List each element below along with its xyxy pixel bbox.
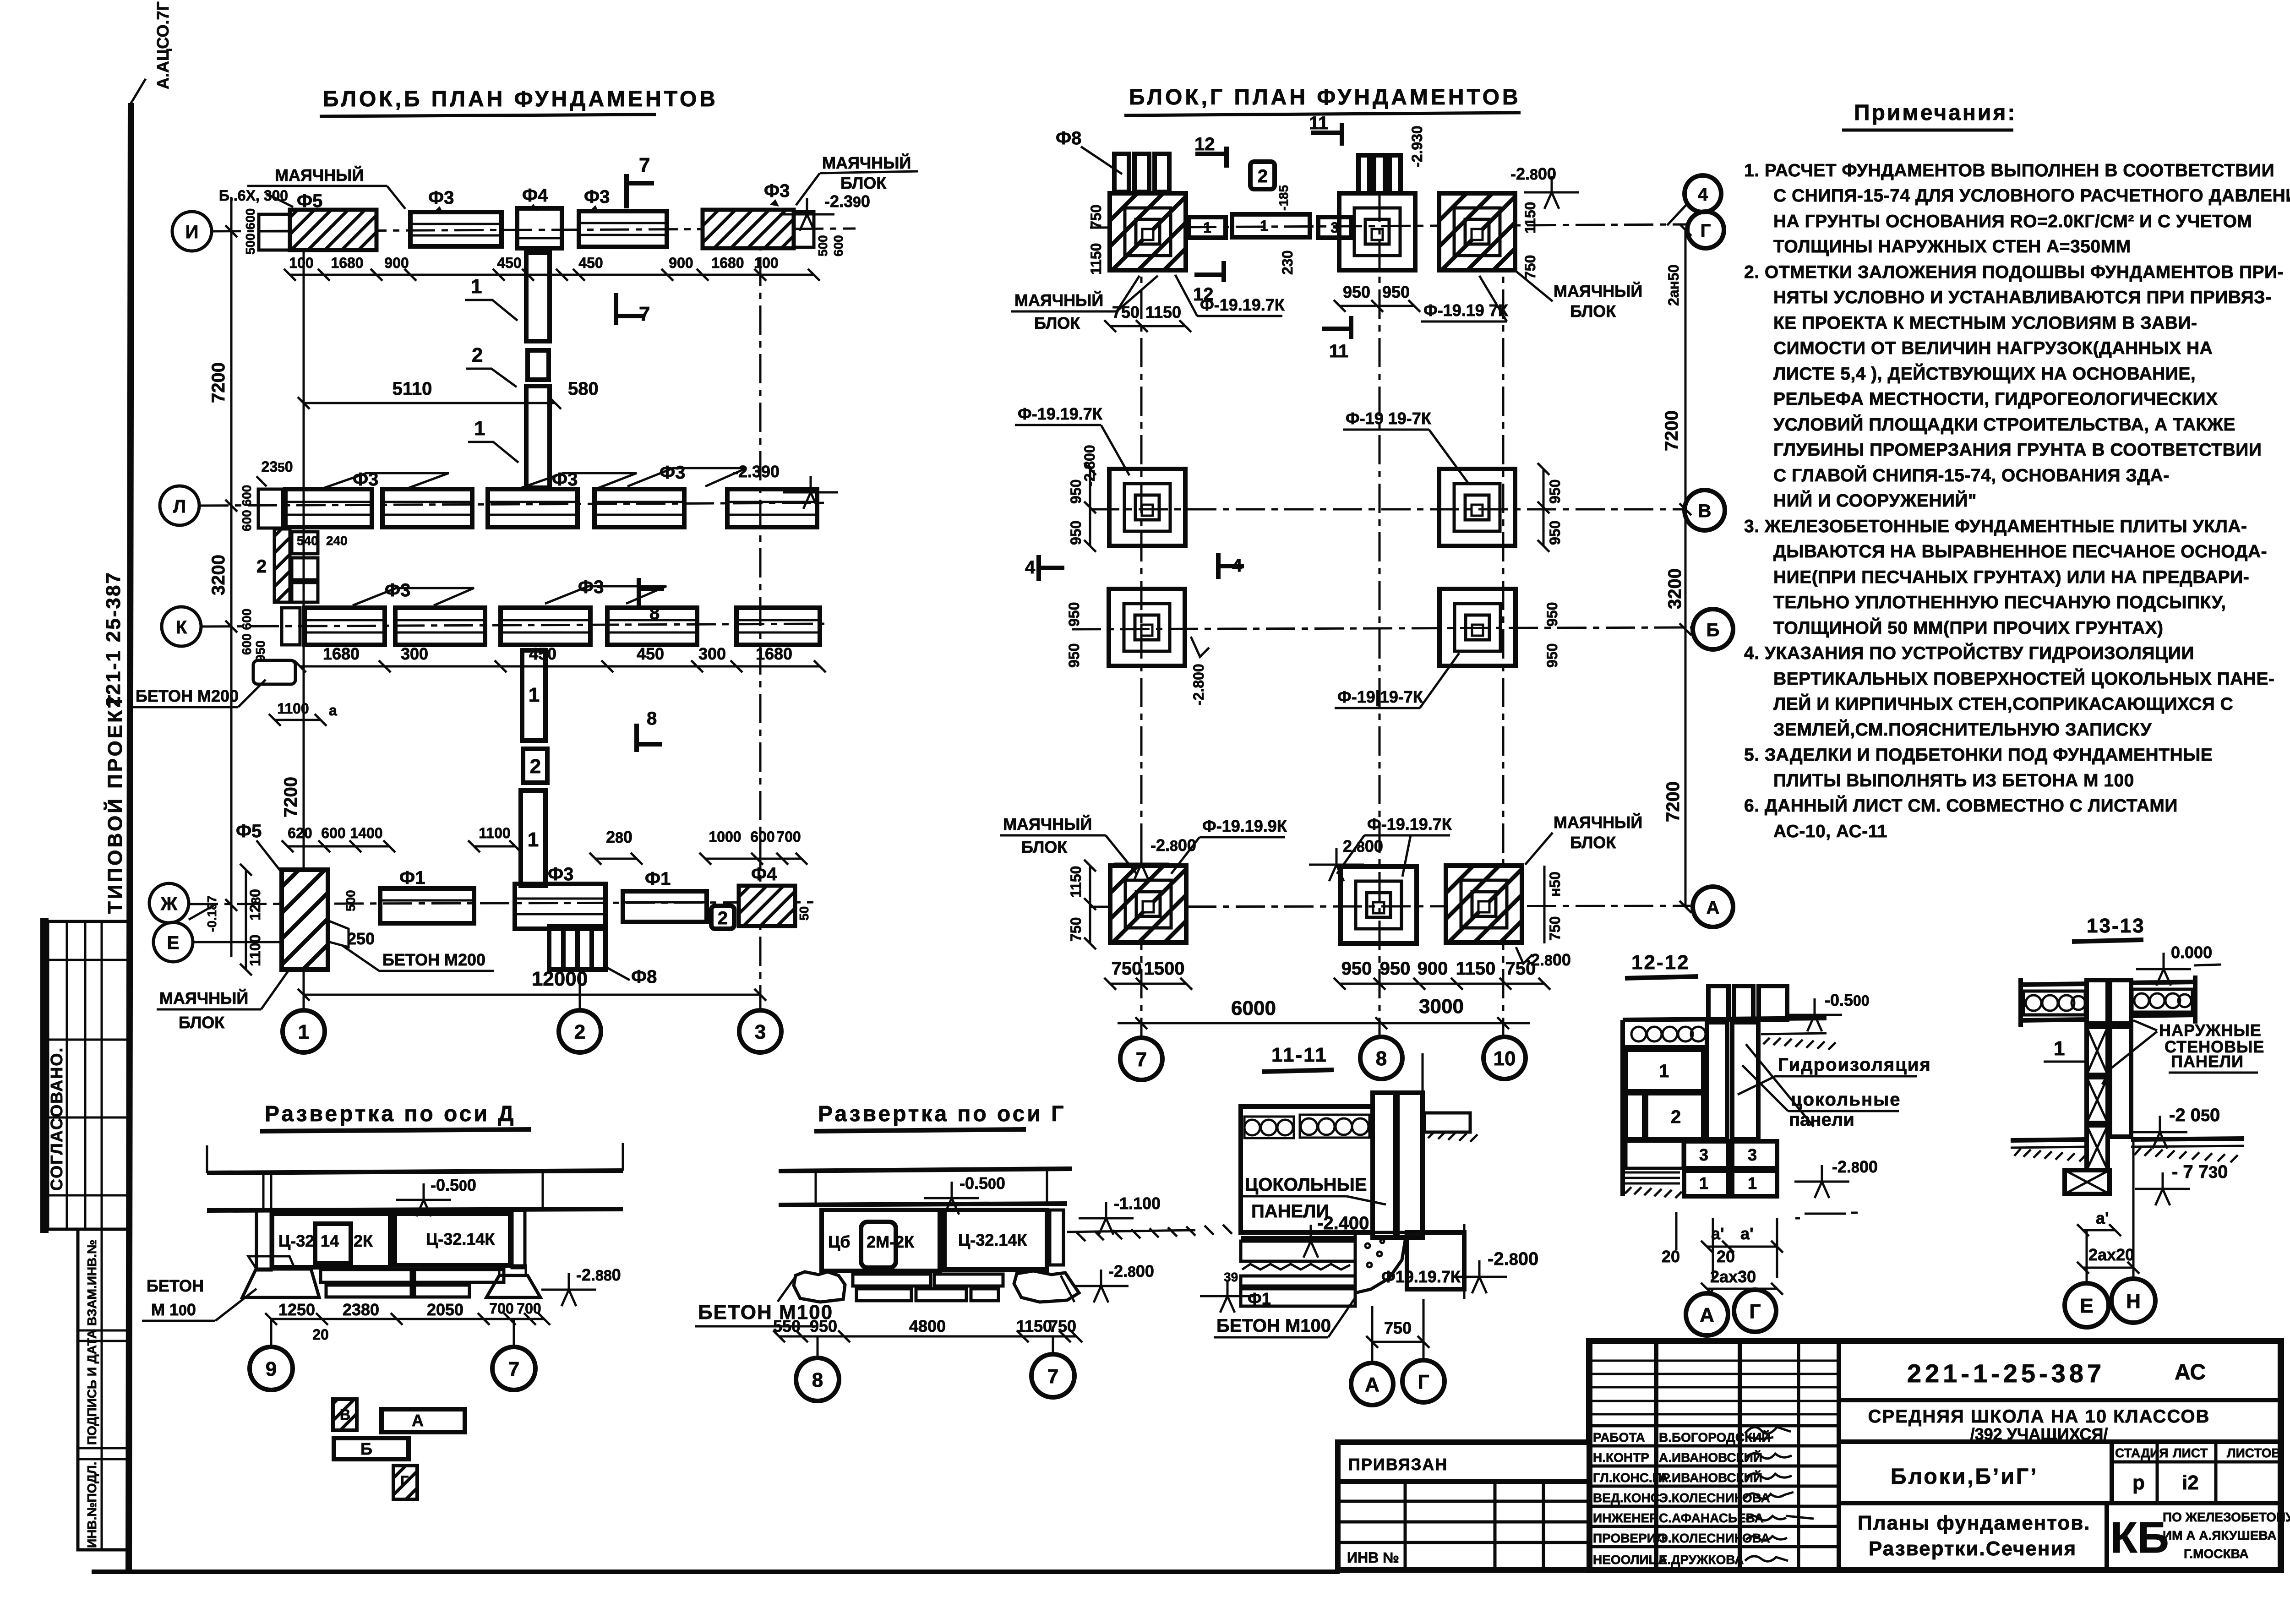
svg-text:2М-2К: 2М-2К (867, 1232, 915, 1251)
legend hatched block Г (393, 1466, 417, 1499)
legend rect Б (334, 1438, 409, 1459)
svg-text:-0.500: -0.500 (1825, 991, 1870, 1009)
svg-text:Н: Н (2126, 1290, 2141, 1313)
svg-text:МАЯЧНЫЙ: МАЯЧНЫЙ (1554, 812, 1642, 832)
svg-text:і2: і2 (2182, 1471, 2199, 1494)
axis circle А right (1693, 887, 1733, 927)
svg-text:3200: 3200 (208, 555, 229, 595)
svg-text:БЛОК: БЛОК (1021, 838, 1068, 856)
title block left rows (1589, 1361, 1839, 1414)
svg-text:-2.390: -2.390 (733, 462, 780, 481)
middle blocks row Г small 3 (1318, 217, 1351, 238)
axis 8 vertical (1379, 192, 1381, 1037)
svg-text:толщины наружных стен а=350мм: толщины наружных стен а=350мм (1773, 237, 2131, 256)
svg-text:Ф4: Ф4 (751, 864, 777, 884)
svg-text:АС-10, АС-11: АС-10, АС-11 (1773, 822, 1887, 841)
svg-text:Ф8: Ф8 (1056, 128, 1081, 148)
svg-text:БЕТОН М200: БЕТОН М200 (136, 687, 239, 705)
svg-text:300: 300 (401, 644, 428, 663)
middle blocks row Г small 1 (1189, 217, 1226, 238)
svg-text:10: 10 (1494, 1047, 1516, 1070)
row Ж strip Ф1 right (623, 891, 707, 922)
elevation Г right wall end (1050, 1210, 1063, 1265)
svg-text:11: 11 (1309, 113, 1328, 133)
vertical panels section 12-12 (1707, 1022, 1727, 1139)
svg-text:3. Железобетонные фундаментные: 3. Железобетонные фундаментные плиты укл… (1744, 517, 2247, 536)
svg-text:Г: Г (1750, 1300, 1761, 1323)
svg-text:Ф3: Ф3 (764, 181, 790, 201)
svg-text:Б: Б (1707, 620, 1720, 640)
section 13-13 central column right strip (2110, 980, 2131, 1024)
dims a a section 12-12 (1707, 1246, 1777, 1248)
svg-text:1150: 1150 (1522, 202, 1538, 234)
pad 7-В nested (1109, 469, 1185, 546)
svg-text:БЛОК: БЛОК (840, 174, 887, 192)
section mark 7 top (627, 174, 654, 208)
axis line Ж (189, 902, 820, 904)
section 12-12 top blocks (1708, 986, 1728, 1020)
svg-text:ПОДПИСЬ И ДАТА: ПОДПИСЬ И ДАТА (85, 1330, 99, 1445)
row Л strip 3 (488, 489, 578, 527)
corner mark top-left (129, 79, 146, 106)
svg-text:НАРУЖНЫЕ: НАРУЖНЫЕ (2159, 1021, 2262, 1040)
svg-text:Ф-19.19.7К: Ф-19.19.7К (1018, 404, 1103, 423)
svg-text:100: 100 (754, 255, 778, 271)
svg-text:900: 900 (1418, 959, 1448, 979)
svg-text:ИНВ №: ИНВ № (1347, 1549, 1399, 1566)
svg-text:4800: 4800 (909, 1317, 946, 1335)
svg-text:39: 39 (1224, 1270, 1238, 1284)
svg-text:950: 950 (1547, 480, 1563, 504)
svg-text:1680: 1680 (756, 644, 792, 663)
svg-text:АС: АС (2175, 1360, 2206, 1384)
svg-text:2К: 2К (354, 1232, 373, 1250)
axis circle 8 (1360, 1037, 1402, 1079)
small tick near Ж circle (189, 904, 216, 920)
concrete patch бетон (1355, 1232, 1407, 1293)
svg-text:450: 450 (637, 644, 664, 663)
block Ф19.19.7К (1407, 1232, 1464, 1289)
svg-text:Ц-32.14К: Ц-32.14К (426, 1230, 495, 1248)
svg-text:1680: 1680 (331, 255, 363, 271)
svg-text:Примечания:: Примечания: (1854, 101, 2017, 125)
row И hatched strip A (маячный блок) (290, 210, 376, 250)
svg-text:100: 100 (289, 255, 313, 271)
svg-text:750: 750 (1049, 1317, 1076, 1335)
svg-text:а: а (329, 702, 337, 719)
svg-text:Г: Г (400, 1473, 409, 1489)
pad 7-Б nested (1109, 589, 1185, 666)
svg-text:А: А (412, 1411, 424, 1430)
svg-text:1250: 1250 (278, 1300, 315, 1319)
svg-text:1500: 1500 (1144, 959, 1185, 979)
row Ж block Ф3 at axis2 (515, 884, 605, 929)
svg-text:Б: Б (360, 1439, 372, 1458)
svg-text:5. Заделки и подбетонки под фу: 5. Заделки и подбетонки под фундаментные (1744, 745, 2213, 765)
axis circle Б right (1693, 609, 1733, 649)
svg-text:2: 2 (530, 755, 541, 778)
svg-text:6. Данный лист см. совместно с: 6. Данный лист см. совместно с листами (1744, 795, 2178, 816)
small wedge at Ф5 bottom right (328, 921, 349, 947)
elevation Г footing stones right (1014, 1271, 1079, 1302)
ground line section 13-13 (2011, 1139, 2087, 1140)
svg-text:221-1-25-387: 221-1-25-387 (1907, 1359, 2105, 1388)
svg-text:БЛОК: БЛОК (1570, 833, 1616, 852)
dim 5110 / 580 (304, 402, 555, 404)
svg-text:ЛИСТ: ЛИСТ (2173, 1446, 2208, 1460)
axis circle К (162, 607, 201, 646)
section mark 11 lower (1322, 316, 1351, 339)
svg-text:950: 950 (1544, 602, 1560, 627)
бетон М200 block under К corner (253, 660, 295, 684)
svg-text:1680: 1680 (323, 644, 360, 663)
wall strip axis2 above Ж (521, 790, 545, 886)
svg-text:750: 750 (1068, 917, 1084, 942)
row И strip Ф4 (517, 208, 562, 248)
svg-text:-2.930: -2.930 (1409, 125, 1425, 167)
Ф8 vertical bars block under axis2 (549, 926, 605, 970)
svg-text:2ах20: 2ах20 (2088, 1245, 2134, 1264)
section 11-11 right slab with ground (1424, 1113, 1470, 1132)
elevation Д right pier (512, 1210, 525, 1268)
signatures squiggles (1745, 1427, 1791, 1439)
svg-text:950: 950 (1544, 643, 1560, 668)
svg-text:Ф1: Ф1 (645, 869, 671, 889)
svg-text:-0.500: -0.500 (960, 1174, 1005, 1193)
svg-text:тельно уплотненную песчаную по: тельно уплотненную песчаную подсыпку, (1773, 593, 2226, 612)
svg-text:Ф3: Ф3 (428, 188, 454, 208)
wall block 2 below К (523, 749, 547, 783)
svg-text:3000: 3000 (1419, 995, 1464, 1018)
section mark 11 upper (1311, 123, 1342, 146)
svg-text:-2.800: -2.800 (1150, 836, 1196, 855)
row Л strip 4 (594, 489, 684, 527)
svg-text:Гидроизоляция: Гидроизоляция (1778, 1055, 1931, 1075)
svg-text:БЕТОН М100: БЕТОН М100 (698, 1301, 833, 1324)
svg-text:ИМ А А.ЯКУШЕВА: ИМ А А.ЯКУШЕВА (2163, 1528, 2276, 1542)
svg-text:2: 2 (1671, 1107, 1681, 1127)
svg-text:2: 2 (718, 908, 728, 928)
elevation Д top slab line (207, 1171, 623, 1173)
rotated dims right of pad 10-В (1543, 469, 1545, 546)
legend rect А (382, 1409, 465, 1432)
rotated dims right of pad 10-А (1543, 866, 1546, 943)
svg-text:1150: 1150 (1145, 303, 1181, 322)
axis line К (201, 624, 824, 627)
svg-text:600 600: 600 600 (240, 485, 254, 531)
svg-text:БЕТОН М100: БЕТОН М100 (1216, 1316, 1331, 1336)
row И hatched strip D (703, 210, 794, 248)
svg-text:250: 250 (347, 929, 375, 948)
svg-text:8: 8 (647, 708, 657, 729)
svg-text:4: 4 (1698, 185, 1708, 205)
dim line 6000 3000 (1118, 1022, 1530, 1025)
svg-text:ПРИВЯЗАН: ПРИВЯЗАН (1348, 1455, 1448, 1474)
svg-text:1680: 1680 (711, 255, 744, 271)
small blocks chain below Л (292, 532, 318, 554)
elevation Д right footing trapezoid (486, 1275, 540, 1297)
dim 1100 a (275, 719, 321, 721)
axis circle 10 (1483, 1037, 1526, 1079)
svg-text:750: 750 (1505, 959, 1536, 979)
svg-text:ТИПОВОЙ ПРОЕКТ: ТИПОВОЙ ПРОЕКТ (103, 693, 126, 914)
dim 750 section 11-11 (1372, 1341, 1423, 1343)
svg-text:11: 11 (1329, 341, 1348, 361)
svg-text:-2.800: -2.800 (1510, 164, 1556, 183)
pad 10-Г hatched (1439, 193, 1515, 270)
svg-text:-2.800: -2.800 (1108, 1262, 1154, 1281)
svg-text:Е.ДРУЖКОВА: Е.ДРУЖКОВА (1659, 1553, 1744, 1567)
svg-text:ЛИСТОВ: ЛИСТОВ (2227, 1446, 2281, 1460)
pad 8-А nested (1341, 866, 1417, 943)
svg-text:7: 7 (508, 1358, 519, 1380)
Ф8 bars above pad 8-Г (1358, 155, 1401, 193)
svg-text:-2.800: -2.800 (1488, 1249, 1538, 1269)
row К strip 1 (305, 608, 385, 645)
svg-text:1: 1 (2054, 1037, 2065, 1060)
svg-text:540: 540 (297, 534, 318, 548)
svg-text:К: К (176, 617, 187, 638)
axis 3 vertical line (759, 208, 762, 1009)
svg-text:950: 950 (1547, 521, 1563, 545)
axis circle Н (2132, 1137, 2135, 1278)
svg-text:МАЯЧНЫЙ: МАЯЧНЫЙ (1554, 281, 1642, 300)
svg-text:А.АЦСО.7Г: А.АЦСО.7Г (153, 1, 172, 89)
svg-text:Развертка по оси Д: Развертка по оси Д (265, 1102, 516, 1126)
row Л strip 1 (285, 489, 372, 527)
svg-text:7: 7 (1047, 1365, 1058, 1388)
svg-text:ний и сооружений": ний и сооружений" (1773, 490, 1977, 511)
svg-text:БЛОК: БЛОК (1570, 302, 1616, 321)
svg-text:А: А (1707, 898, 1720, 918)
svg-text:2: 2 (574, 1021, 585, 1043)
svg-text:МАЯЧНЫЙ: МАЯЧНЫЙ (1014, 290, 1103, 310)
row И end block (794, 212, 814, 247)
stamp strip lower (78, 1229, 129, 1550)
svg-text:-2.880: -2.880 (576, 1265, 621, 1284)
svg-text:Е: Е (167, 933, 180, 953)
legend hatched block В (333, 1399, 357, 1430)
elevation Г footing stones left (794, 1272, 845, 1302)
dim line 12000 (304, 994, 760, 996)
svg-text:2. Отметки заложения подошвы ф: 2. Отметки заложения подошвы фундаментов… (1744, 262, 2284, 282)
svg-text:условий площадки строительства: условий площадки строительства, а также (1773, 414, 2235, 435)
dim 950 950 900 1150 750 under pads 8/10-А (1340, 983, 1544, 985)
wall strip axis2 below К (522, 650, 545, 741)
section 11-11 hollow slab circles band (1244, 1115, 1369, 1138)
svg-text:1: 1 (1699, 1174, 1708, 1193)
svg-text:МАЯЧНЫЙ: МАЯЧНЫЙ (822, 153, 911, 172)
svg-text:Ф1: Ф1 (1248, 1289, 1271, 1308)
svg-text:7: 7 (639, 154, 650, 176)
axis line Г (1090, 224, 1686, 228)
svg-text:1400: 1400 (350, 825, 382, 841)
svg-text:1: 1 (474, 417, 485, 440)
svg-text:1280: 1280 (247, 889, 263, 921)
svg-text:8: 8 (1376, 1047, 1387, 1070)
svg-text:БЕТОН: БЕТОН (147, 1276, 204, 1295)
elevation Д left footing trapezoid (242, 1269, 319, 1297)
svg-text:рельефа местности, гидрогеолог: рельефа местности, гидрогеологических (1773, 389, 2218, 409)
svg-text:ВЕД.КОНС: ВЕД.КОНС (1593, 1491, 1660, 1505)
axis circle 7 развертка Г (1052, 1336, 1054, 1354)
svg-text:СОГЛАСОВАНО.: СОГЛАСОВАНО. (47, 1047, 66, 1191)
axis 10 vertical (1502, 192, 1505, 1037)
axis circle В right (1685, 490, 1725, 530)
svg-text:Ц-32.14К: Ц-32.14К (958, 1231, 1027, 1249)
elevation Г wall band (779, 1204, 1067, 1205)
svg-text:БЛОК,Г ПЛАН ФУНДАМЕНТОВ: БЛОК,Г ПЛАН ФУНДАМЕНТОВ (1129, 85, 1521, 109)
row К corner block (282, 608, 300, 645)
sheet frame bottom border (92, 1570, 1340, 1574)
svg-text:лей и кирпичных стен,соприкаса: лей и кирпичных стен,соприкасающихся с (1773, 693, 2233, 714)
row Л strip 2 (382, 489, 472, 527)
svg-text:СТАДИЯ: СТАДИЯ (2115, 1446, 2168, 1460)
svg-text:14: 14 (321, 1232, 339, 1250)
svg-text:2ах30: 2ах30 (1710, 1267, 1756, 1286)
svg-text:аʹ: аʹ (1740, 1224, 1754, 1243)
svg-text:280: 280 (606, 828, 632, 846)
svg-text:20: 20 (312, 1326, 329, 1343)
svg-text:450: 450 (578, 255, 603, 271)
svg-text:БЕТОН М200: БЕТОН М200 (382, 950, 485, 969)
axis circle Г right (1687, 212, 1724, 248)
pad 7-А hatched (1110, 866, 1186, 943)
left footing section 12-12 (1626, 1141, 1683, 1168)
svg-text:ПАНЕЛИ: ПАНЕЛИ (2171, 1052, 2244, 1071)
svg-text:Ф4: Ф4 (522, 185, 548, 206)
svg-text:230: 230 (1279, 251, 1296, 275)
svg-text:950: 950 (1343, 283, 1370, 301)
svg-text:Ф-19.19.9К: Ф-19.19.9К (1202, 817, 1287, 835)
Ф8 bars above pad 7-Г (1114, 154, 1169, 192)
svg-text:ке проекта к местным условиям: ке проекта к местным условиям в зави- (1773, 313, 2197, 333)
svg-text:0.000: 0.000 (2171, 943, 2212, 962)
elevation Г footing slabs (853, 1274, 931, 1286)
svg-text:-2 050: -2 050 (2169, 1105, 2220, 1125)
svg-text:Э.КОЛЕСНИКОВА: Э.КОЛЕСНИКОВА (1659, 1531, 1770, 1545)
elevation Г panel 2 (944, 1210, 1047, 1270)
elevation Д panel 1 with label Ц-32 14 2К (272, 1214, 390, 1267)
svg-text:- 7 730: - 7 730 (2172, 1162, 2228, 1182)
axis 7 vertical (1140, 192, 1143, 1037)
row И strip B (410, 212, 502, 246)
section 12-12 slab band (1623, 1018, 1827, 1020)
svg-text:Ф3: Ф3 (584, 187, 610, 207)
svg-text:И: И (185, 222, 199, 242)
svg-text:900: 900 (384, 255, 409, 271)
svg-text:Е: Е (2080, 1295, 2093, 1317)
svg-text:В: В (340, 1406, 350, 1423)
pad 10-Б nested (1439, 589, 1516, 666)
svg-text:3: 3 (1699, 1145, 1708, 1164)
svg-text:7200: 7200 (208, 362, 229, 403)
rotated dims 950 950 left of pad 7-В (1089, 469, 1091, 546)
svg-text:МАЯЧНЫЙ: МАЯЧНЫЙ (159, 988, 248, 1008)
svg-text:2380: 2380 (343, 1300, 379, 1319)
svg-text:с СНиПЯ-15-74 для условного ра: с СНиПЯ-15-74 для условного расчетного д… (1773, 186, 2290, 206)
svg-text:7: 7 (639, 303, 650, 325)
svg-text:Г: Г (1418, 1371, 1429, 1393)
svg-text:950: 950 (1382, 283, 1410, 301)
svg-text:Развертка по оси Г: Развертка по оси Г (818, 1102, 1066, 1126)
svg-text:1150: 1150 (1016, 1317, 1052, 1335)
pad 7-Г hatched маячный блок (1110, 193, 1186, 270)
wall strip axis2 lower (526, 386, 550, 488)
section 13-13 central column left strip (2087, 980, 2108, 1024)
svg-text:600 600: 600 600 (240, 609, 254, 655)
svg-text:950: 950 (253, 640, 267, 662)
hatched pier block between Л and К (274, 529, 290, 602)
svg-text:-2.800: -2.800 (1832, 1157, 1878, 1176)
svg-text:симости от величин нагрузок(да: симости от величин нагрузок(данных на (1773, 338, 2213, 358)
svg-text:МАЯЧНЫЙ: МАЯЧНЫЙ (1003, 814, 1092, 834)
svg-text:450: 450 (497, 255, 521, 271)
svg-text:-1.100: -1.100 (1114, 1194, 1161, 1213)
foot block section 13-13 (2065, 1170, 2110, 1194)
svg-text:Н.КОНТР: Н.КОНТР (1593, 1450, 1649, 1465)
dim row under К (300, 665, 820, 668)
dim 1100 mid (474, 845, 515, 848)
КБ organization box (2105, 1503, 2109, 1570)
svg-text:СРЕДНЯЯ ШКОЛА НА 10 КЛАССОВ: СРЕДНЯЯ ШКОЛА НА 10 КЛАССОВ (1868, 1406, 2210, 1427)
block 1 (1626, 1050, 1703, 1091)
svg-text:750: 750 (1384, 1319, 1412, 1337)
svg-text:950: 950 (1068, 521, 1084, 545)
svg-text:8: 8 (649, 603, 660, 623)
svg-text:3: 3 (1748, 1145, 1757, 1164)
svg-text:ИНЖЕНЕР: ИНЖЕНЕР (1593, 1511, 1658, 1525)
svg-text:НЕООЛИЦА: НЕООЛИЦА (1593, 1553, 1667, 1567)
box 2 above row Г (1250, 162, 1275, 189)
svg-text:580: 580 (568, 379, 599, 399)
axis circle 8 развертка Г (817, 1336, 819, 1357)
axis circle 7 (1120, 1038, 1162, 1080)
svg-text:КБ: КБ (2110, 1513, 2169, 1562)
svg-text:1100: 1100 (479, 825, 510, 841)
axis line В (1090, 508, 1685, 511)
svg-text:5110: 5110 (393, 379, 432, 399)
svg-text:Ф-19|19-7К: Ф-19|19-7К (1337, 687, 1423, 707)
стадия лист листов columns (2110, 1442, 2114, 1503)
svg-text:Ф-19.19.7К: Ф-19.19.7К (1367, 815, 1452, 834)
block 2 with narrow column (1626, 1093, 1644, 1139)
elevation Г panel 1 (822, 1210, 940, 1271)
dim 750 1150 under pad 7-Г (1110, 325, 1185, 327)
detail box 2 (711, 906, 734, 929)
svg-text:750: 750 (1547, 916, 1563, 941)
middle blocks row Г long (1232, 214, 1310, 237)
svg-text:2: 2 (256, 556, 267, 577)
svg-text:4. Указания по устройству гидр: 4. Указания по устройству гидроизоляции (1744, 643, 2194, 663)
svg-text:А: А (1700, 1304, 1714, 1326)
row Л corner block (258, 489, 283, 528)
svg-text:М 100: М 100 (151, 1300, 196, 1319)
svg-text:глубины промерзания грунта в с: глубины промерзания грунта в соответстви… (1773, 440, 2262, 460)
svg-text:МАЯЧНЫЙ: МАЯЧНЫЙ (275, 165, 364, 185)
svg-text:-0.187: -0.187 (205, 896, 219, 932)
svg-text:Ф8: Ф8 (631, 967, 657, 987)
svg-text:ние(при песчаных грунтах) или: ние(при песчаных грунтах) или на предвар… (1773, 567, 2249, 587)
svg-text:4: 4 (1232, 556, 1243, 576)
svg-text:1150: 1150 (1088, 243, 1104, 275)
section 13-13 left slab (2021, 984, 2088, 985)
svg-text:-2.400: -2.400 (1317, 1213, 1369, 1233)
svg-text:1: 1 (1260, 218, 1268, 234)
svg-text:А: А (1365, 1373, 1379, 1396)
axis circle Ж (149, 883, 189, 923)
axis line А (1090, 906, 1693, 907)
